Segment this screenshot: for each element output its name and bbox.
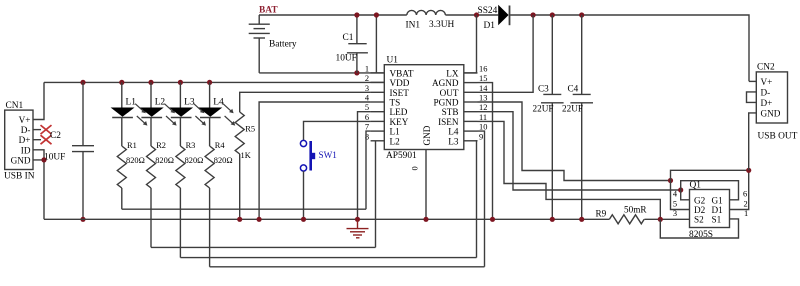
- svg-text:G2: G2: [694, 195, 706, 205]
- wire CN2 GND stub down: [749, 113, 757, 170]
- node VBAT riser top junction: [374, 12, 379, 17]
- pin 10 stub: [464, 130, 478, 132]
- svg-text:C3: C3: [538, 84, 549, 94]
- no-connect X on D-: [41, 125, 52, 134]
- capacitor C4 22UF: [562, 15, 593, 219]
- node C2 top junction: [80, 80, 85, 85]
- switch SW1: [300, 140, 337, 171]
- svg-text:IN1: IN1: [406, 21, 421, 31]
- diode D1 SS24: [478, 5, 510, 31]
- svg-text:R1: R1: [127, 141, 137, 150]
- svg-text:Battery: Battery: [269, 40, 297, 50]
- svg-text:50mR: 50mR: [624, 205, 647, 215]
- svg-text:GND: GND: [761, 109, 781, 119]
- svg-text:OUT: OUT: [440, 88, 459, 98]
- wire L3 pin9 to R3: [477, 141, 478, 258]
- wire VDD rail: [44, 81, 384, 83]
- svg-text:D-: D-: [761, 88, 771, 98]
- LED L2: [140, 82, 177, 146]
- node L3 top junction: [178, 80, 183, 85]
- node L2 top junction: [148, 80, 153, 85]
- svg-text:22UF: 22UF: [562, 104, 583, 114]
- wire STB to Q1 gates: [478, 112, 681, 190]
- pin 3 stub: [371, 91, 385, 93]
- svg-text:9: 9: [479, 132, 483, 141]
- node A output-ground junction: [668, 178, 673, 183]
- svg-text:1K: 1K: [241, 151, 251, 160]
- transistor Q1 8205S: [689, 181, 730, 240]
- svg-text:R4: R4: [215, 141, 226, 150]
- wire SW1 to ground rail: [303, 171, 305, 219]
- node B gate junction: [678, 187, 683, 192]
- node CN1 GND junction: [41, 157, 46, 162]
- resistor R3 820ohm: [176, 141, 203, 258]
- svg-text:L1: L1: [126, 98, 137, 108]
- svg-text:L3: L3: [184, 98, 195, 108]
- svg-text:CN1: CN1: [6, 101, 24, 111]
- svg-text:11: 11: [479, 113, 487, 122]
- svg-text:D+: D+: [761, 98, 773, 108]
- wire TS to ground rail: [259, 102, 371, 219]
- svg-text:R5: R5: [245, 125, 255, 134]
- svg-text:3.3UH: 3.3UH: [429, 20, 454, 30]
- LED L4: [198, 82, 235, 146]
- wire L2 pin8 to R2: [375, 141, 377, 248]
- wire node B up over Q1 to G1: [681, 181, 739, 200]
- svg-text:R3: R3: [186, 141, 196, 150]
- resistor R5 1K: [235, 112, 255, 219]
- node C1 bottom junction: [354, 70, 359, 75]
- svg-text:CN2: CN2: [757, 63, 775, 73]
- node R5 bottom junction: [237, 217, 242, 222]
- pin 16 stub: [464, 72, 478, 74]
- svg-text:V+: V+: [19, 115, 31, 125]
- svg-text:L2: L2: [390, 136, 401, 146]
- svg-text:L4: L4: [448, 127, 459, 137]
- svg-text:U1: U1: [387, 56, 399, 66]
- svg-text:GND: GND: [11, 155, 31, 165]
- wire R4 bottom line: [210, 266, 485, 268]
- wire CN1 V+ stub and riser to VDD rail: [33, 82, 44, 119]
- wire CN1 GND stub down to ground rail: [33, 160, 44, 219]
- svg-text:16: 16: [479, 64, 487, 73]
- node LX tap junction: [474, 12, 479, 17]
- svg-text:LX: LX: [446, 68, 459, 78]
- svg-text:STB: STB: [442, 107, 459, 117]
- wire ISEN to sense junction: [478, 121, 661, 219]
- svg-text:Q1: Q1: [690, 181, 702, 191]
- svg-text:VBAT: VBAT: [390, 68, 414, 78]
- pin 5 stub: [371, 111, 385, 113]
- inductor IN1 3.3UH: [406, 10, 455, 30]
- wire S1 loop to sense junction: [660, 219, 738, 238]
- svg-text:820Ω: 820Ω: [214, 156, 233, 165]
- wire L1 pin7 to R1: [366, 131, 371, 209]
- resistor R1 820ohm: [117, 141, 144, 209]
- svg-text:3: 3: [365, 84, 369, 93]
- node L1 top junction: [119, 80, 124, 85]
- wire LED pin5 to ground: [358, 112, 371, 220]
- wire R1 bottom line: [122, 208, 366, 210]
- svg-text:C1: C1: [343, 33, 354, 43]
- op-amp U1 AP5901: [384, 56, 464, 162]
- svg-text:USB OUT: USB OUT: [758, 132, 798, 142]
- LED L1: [111, 82, 148, 146]
- node TS ground junction: [257, 217, 262, 222]
- svg-text:USB IN: USB IN: [4, 172, 35, 182]
- svg-text:BAT: BAT: [259, 6, 278, 16]
- svg-text:AP5901: AP5901: [386, 151, 417, 161]
- wire CN1 ID stub down to GND: [33, 150, 44, 160]
- svg-text:ISEN: ISEN: [438, 117, 459, 127]
- svg-text:6: 6: [365, 113, 369, 122]
- svg-text:G1: G1: [712, 195, 724, 205]
- wire inductor to diode anode: [445, 14, 498, 16]
- pin 2 stub: [371, 81, 385, 83]
- wire R3 bottom line: [180, 257, 476, 259]
- ground rail: [44, 218, 609, 220]
- pin 4 stub: [371, 101, 385, 103]
- wire PGND to output ground line: [478, 102, 671, 181]
- svg-text:D-: D-: [21, 125, 31, 135]
- wire D1 from CN2 GND riser: [730, 170, 749, 209]
- pin 0 GND stub to ground rail: [425, 150, 427, 220]
- node C1 top junction: [354, 12, 359, 17]
- pin 15 stub: [464, 82, 478, 84]
- wire top rail battery+ to inductor: [259, 14, 407, 16]
- wire LX to top rail: [464, 15, 477, 73]
- node U1 GND junction: [423, 217, 428, 222]
- svg-text:1: 1: [365, 64, 369, 73]
- svg-text:L2: L2: [155, 98, 166, 108]
- node C3 bottom junction: [550, 217, 555, 222]
- wire CN2 V+ stub: [749, 80, 756, 82]
- svg-text:14: 14: [479, 84, 488, 93]
- wire R2 bottom line: [151, 246, 376, 248]
- pin 1 stub: [371, 72, 385, 74]
- svg-text:ISET: ISET: [390, 88, 410, 98]
- svg-text:D1: D1: [712, 205, 724, 215]
- no-connect X on D+: [41, 135, 52, 144]
- svg-text:820Ω: 820Ω: [155, 156, 174, 165]
- capacitor C3 22UF: [533, 15, 564, 219]
- svg-text:2: 2: [365, 74, 369, 83]
- node CN2 GND junction C: [746, 168, 751, 173]
- svg-text:820Ω: 820Ω: [185, 156, 204, 165]
- svg-text:S2: S2: [694, 215, 704, 225]
- node sense junction X: [658, 217, 663, 222]
- wire diode cathode to CN2 corner, down to CN2 V+: [510, 15, 749, 81]
- pin 11 stub: [464, 120, 478, 122]
- node L4 top junction: [207, 80, 212, 85]
- svg-text:D+: D+: [19, 135, 31, 145]
- node SW1 ground junction: [301, 217, 306, 222]
- LED L3: [169, 82, 206, 146]
- ground rail after R9 to Q1 S2: [644, 218, 689, 220]
- connector CN2 (USB OUT): [756, 63, 797, 142]
- wire KEY to SW1: [304, 121, 371, 140]
- svg-text:10: 10: [479, 123, 487, 132]
- wire OUT to top rail: [478, 15, 534, 92]
- svg-text:10UF: 10UF: [44, 153, 65, 163]
- capacitor C1: [336, 15, 368, 73]
- svg-text:VDD: VDD: [390, 78, 410, 88]
- node C3 top junction: [550, 12, 555, 17]
- pin 13 stub: [464, 101, 478, 103]
- svg-text:2: 2: [744, 199, 748, 208]
- svg-text:D1: D1: [484, 21, 496, 31]
- wire L4 pin10 to R4: [478, 131, 485, 267]
- svg-text:C2: C2: [50, 131, 61, 141]
- svg-text:12: 12: [479, 103, 487, 112]
- svg-text:D2: D2: [694, 205, 706, 215]
- connector CN1 (USB IN): [4, 101, 35, 182]
- svg-text:22UF: 22UF: [533, 104, 554, 114]
- node C4 bottom junction: [579, 217, 584, 222]
- svg-text:3: 3: [673, 209, 677, 218]
- svg-text:L4: L4: [213, 98, 224, 108]
- svg-text:KEY: KEY: [390, 117, 409, 127]
- wire CN2 D- D+ tie: [747, 92, 757, 103]
- wire AGND to ground rail: [478, 83, 493, 220]
- svg-text:SS24: SS24: [478, 6, 498, 16]
- pin 14 stub: [464, 91, 478, 93]
- node LED pin ground junction: [355, 217, 360, 222]
- node C2 bottom junction: [80, 217, 85, 222]
- resistor R4 820ohm: [205, 141, 232, 267]
- svg-text:13: 13: [479, 94, 487, 103]
- svg-text:R2: R2: [156, 141, 166, 150]
- wire battery- / VBAT line: [259, 72, 384, 74]
- wire VBAT riser from top rail to pin 1: [375, 15, 377, 73]
- wire node A up to CN2 GND line: [671, 170, 749, 180]
- svg-text:TS: TS: [390, 98, 401, 108]
- wire node B down to G2 stub: [681, 190, 690, 200]
- capacitor C2: [44, 82, 94, 219]
- pin 6 stub: [371, 120, 385, 122]
- battery BT1: [249, 6, 297, 73]
- svg-text:15: 15: [479, 74, 487, 83]
- svg-text:GND: GND: [422, 125, 432, 145]
- svg-text:L1: L1: [390, 127, 401, 137]
- pin 12 stub: [464, 111, 478, 113]
- svg-text:10UF: 10UF: [336, 54, 357, 64]
- pin 8 stub: [371, 140, 385, 142]
- svg-text:LED: LED: [390, 107, 408, 117]
- svg-text:5: 5: [673, 199, 677, 208]
- svg-text:0: 0: [411, 166, 420, 170]
- resistor R9 50mR: [596, 205, 648, 224]
- svg-text:S1: S1: [712, 215, 722, 225]
- ground: [347, 219, 369, 238]
- svg-text:SW1: SW1: [319, 150, 338, 160]
- node OUT tap junction: [531, 12, 536, 17]
- svg-text:820Ω: 820Ω: [126, 156, 145, 165]
- svg-text:V+: V+: [761, 77, 773, 87]
- node C4 top junction: [579, 12, 584, 17]
- svg-text:C4: C4: [568, 84, 579, 94]
- pin 7 stub: [371, 130, 385, 132]
- svg-text:AGND: AGND: [432, 78, 459, 88]
- svg-text:7: 7: [365, 123, 369, 132]
- wire ISET to R5: [240, 92, 371, 112]
- wire node A down to Q1 D2: [671, 181, 690, 210]
- svg-text:5: 5: [365, 103, 369, 112]
- svg-text:ID: ID: [21, 145, 31, 155]
- pin 9 stub: [464, 140, 478, 142]
- svg-text:PGND: PGND: [433, 98, 458, 108]
- wire CN1 D+ stub: [33, 139, 41, 141]
- resistor R2 820ohm: [147, 141, 174, 247]
- wire CN1 D- stub: [33, 129, 41, 131]
- svg-text:6: 6: [743, 190, 747, 199]
- svg-text:R9: R9: [596, 209, 607, 219]
- node AGND ground junction: [490, 217, 495, 222]
- svg-text:L3: L3: [448, 136, 459, 146]
